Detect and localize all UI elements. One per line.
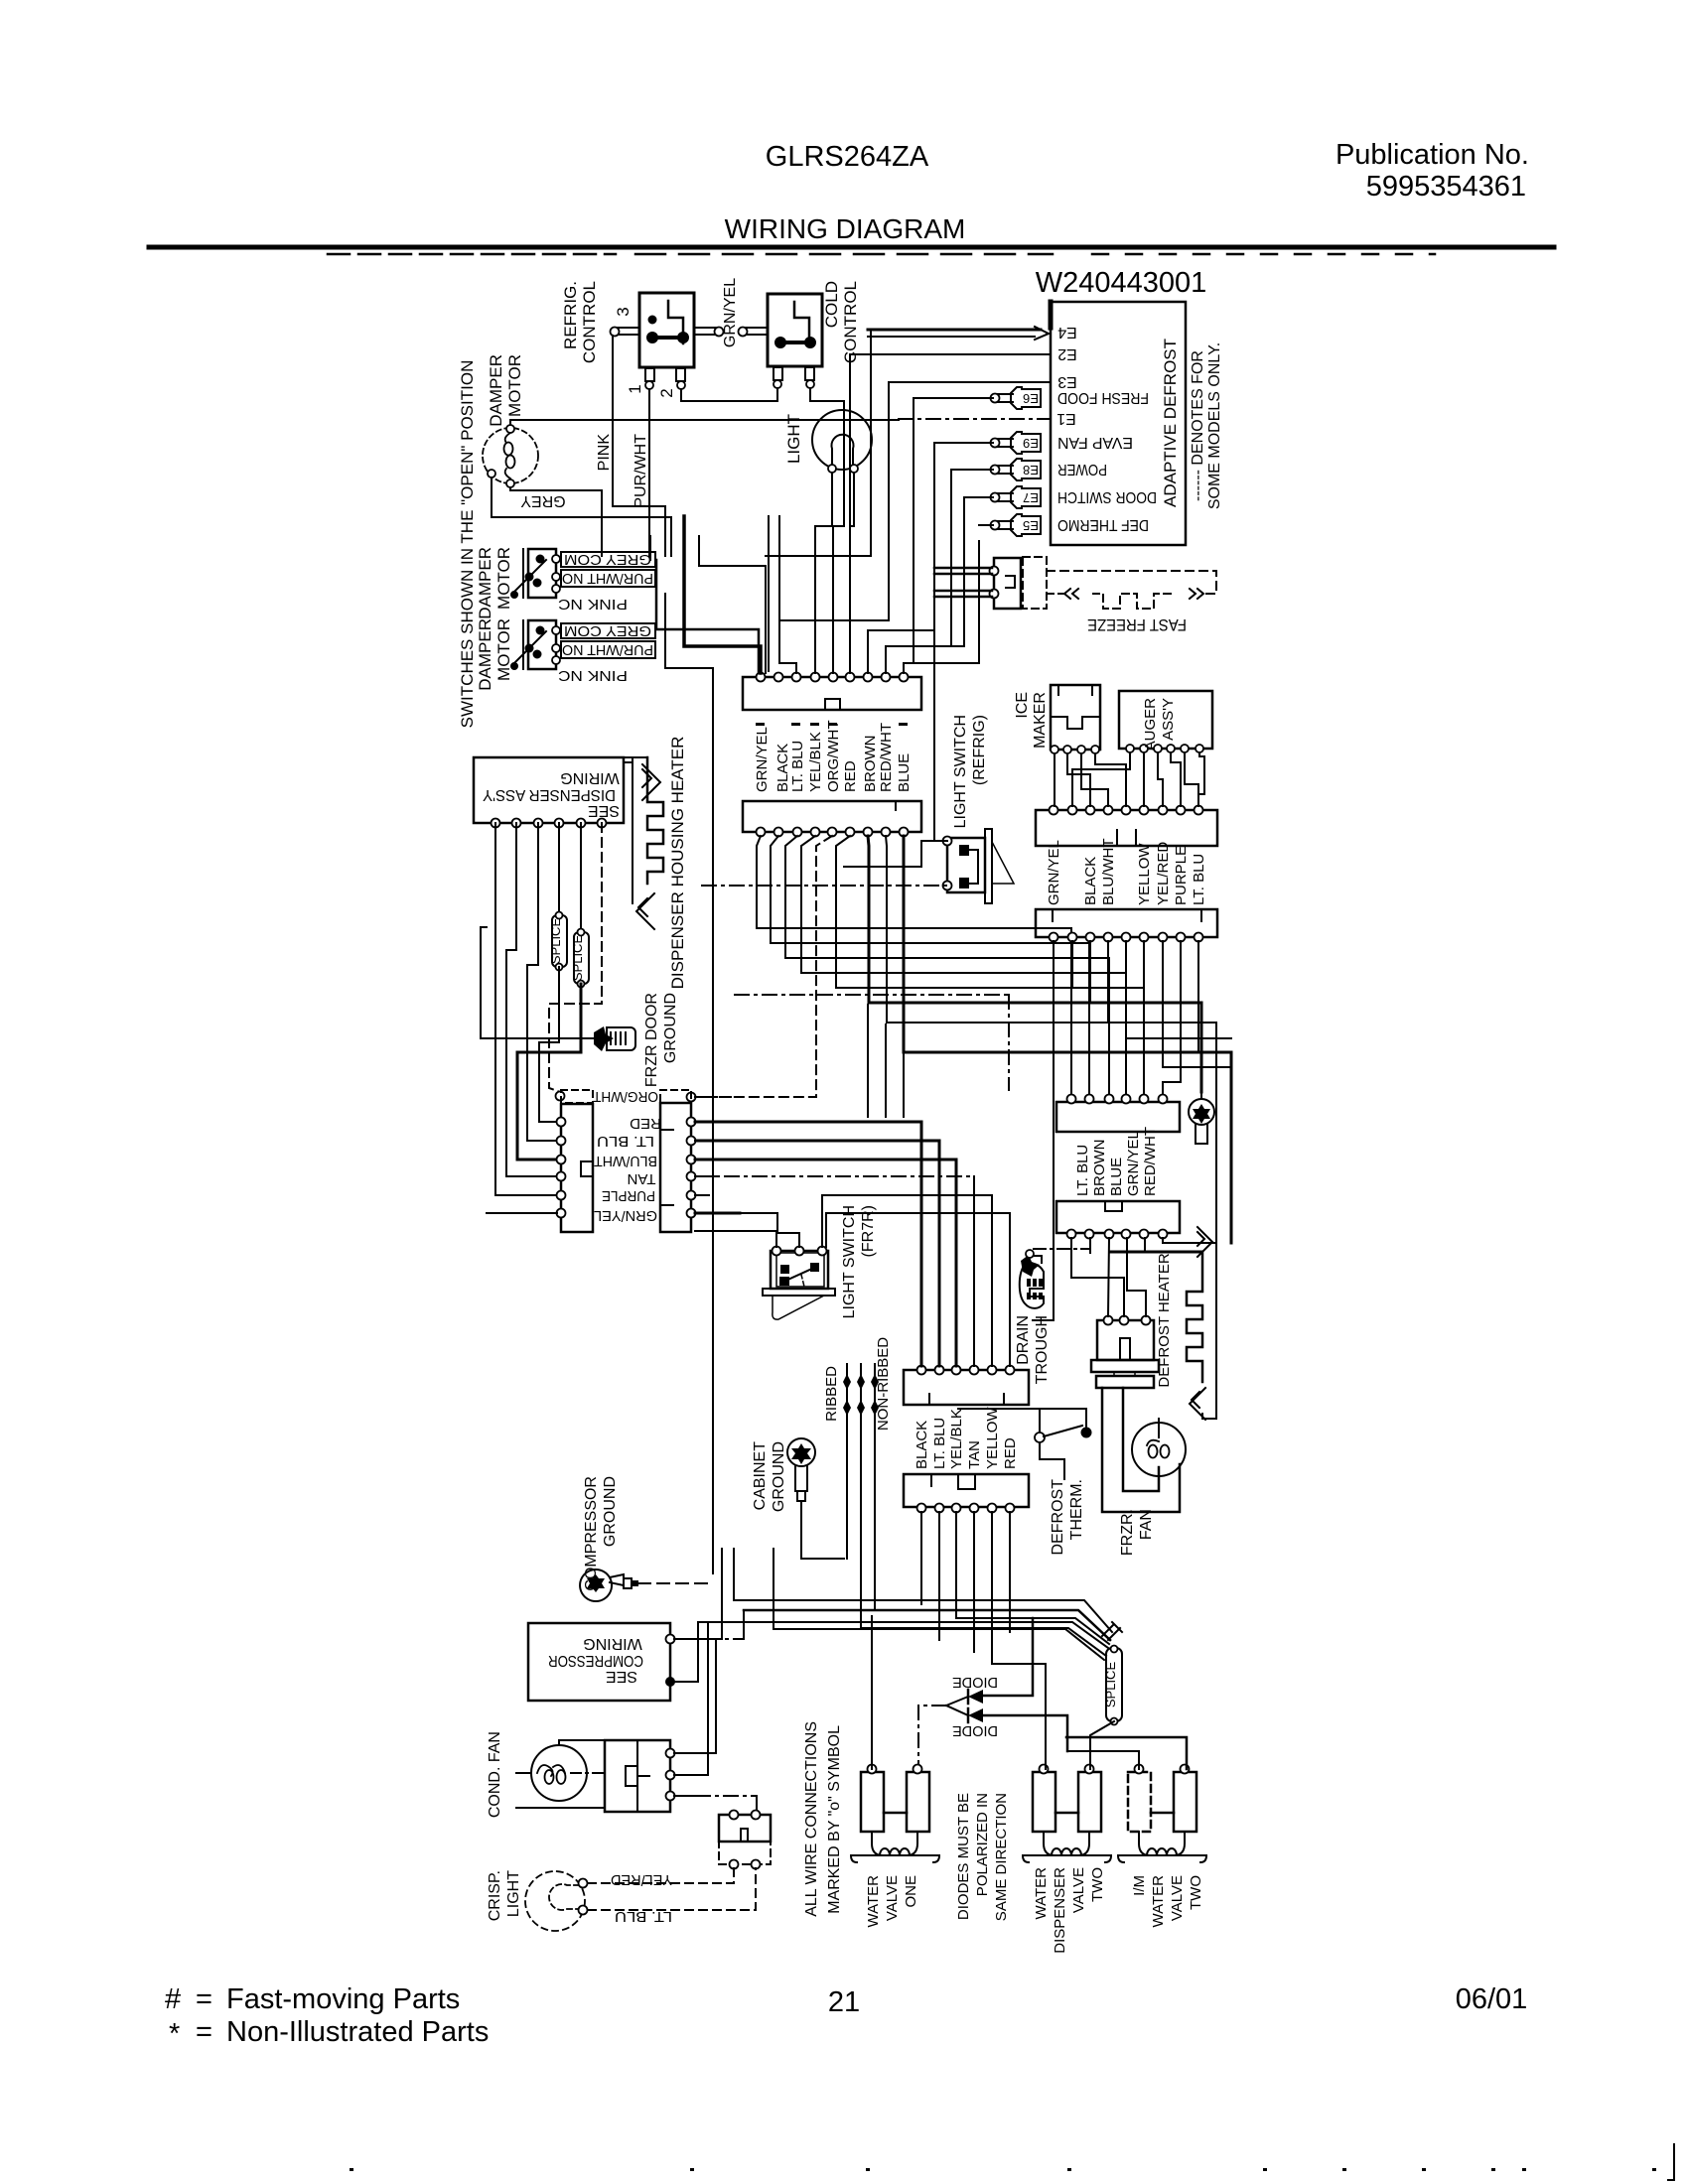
wire splice to valve2 right xyxy=(1090,1721,1114,1769)
connector pin id fragments xyxy=(756,723,908,726)
svg-text:=: = xyxy=(196,2016,212,2048)
i/m water valve two xyxy=(1128,1772,1151,1832)
defrost heater arrows bottom xyxy=(1190,1388,1205,1420)
wire dispenser t3 xyxy=(527,823,557,1141)
wire to light switch top xyxy=(844,841,947,867)
svg-text:PURPLE: PURPLE xyxy=(1173,846,1190,905)
defrost heater element xyxy=(1187,1253,1202,1382)
svg-text:MAKER: MAKER xyxy=(1032,692,1049,749)
svg-text:EVAP FAN: EVAP FAN xyxy=(1057,434,1133,451)
svg-text:LT. BLU: LT. BLU xyxy=(1074,1145,1091,1196)
wire cabinet ground down xyxy=(801,1501,844,1559)
auger assembly xyxy=(1119,691,1212,749)
heater continuation arrows top xyxy=(642,764,660,800)
svg-text:DRAIN: DRAIN xyxy=(1015,1315,1032,1365)
svg-text:BROWN: BROWN xyxy=(1091,1140,1108,1197)
wire dispenser t1 xyxy=(495,823,557,1195)
wire im2 xyxy=(1067,753,1090,806)
svg-text:REFRIG.: REFRIG. xyxy=(561,281,580,349)
svg-text:BLACK: BLACK xyxy=(914,1421,930,1469)
wire cold control to t4 xyxy=(815,417,844,673)
fast freeze vertical xyxy=(904,541,979,663)
ground lug (defrost) xyxy=(1189,1099,1214,1125)
wires into freezer strip xyxy=(697,1122,921,1366)
bottom scan specks xyxy=(350,2168,353,2171)
wire damper motor top to horizontal rail xyxy=(510,420,695,425)
svg-text:DEFROST: DEFROST xyxy=(1050,1479,1066,1556)
thermostat stems (fan leads) xyxy=(1102,1388,1180,1512)
svg-text:E2: E2 xyxy=(1057,345,1077,362)
svg-text:DEF THERMO: DEF THERMO xyxy=(1057,516,1149,533)
svg-text:TAN: TAN xyxy=(966,1440,983,1469)
svg-text:LT. BLU: LT. BLU xyxy=(931,1418,948,1469)
wire light to t6 xyxy=(850,473,854,673)
light bulb xyxy=(812,410,872,470)
svg-text:FRESH FOOD: FRESH FOOD xyxy=(1057,389,1149,406)
wire left t7 horizontal xyxy=(487,1212,557,1214)
wire E7 door switch xyxy=(964,496,993,498)
svg-text:PINK NC: PINK NC xyxy=(558,596,628,613)
defrost strip upper xyxy=(1056,1102,1180,1132)
svg-text:E1: E1 xyxy=(1056,410,1076,427)
wire pur/wht pin1 down xyxy=(648,389,650,556)
svg-text:W240443001: W240443001 xyxy=(1036,267,1207,299)
wire damper motor bottom grey xyxy=(510,487,602,556)
wire E5 def thermo xyxy=(979,524,993,526)
adaptive defrost control box xyxy=(1051,302,1186,545)
see dispenser assy wiring box xyxy=(474,757,624,823)
ice/auger strip lower xyxy=(1036,909,1217,937)
splice 2 xyxy=(580,823,582,932)
svg-text:GROUND: GROUND xyxy=(771,1441,787,1512)
cable tail verticals xyxy=(867,1005,869,1117)
refrig control switch xyxy=(639,293,694,367)
wire E4 xyxy=(868,329,1041,332)
svg-text:ORG/WHT: ORG/WHT xyxy=(593,1088,658,1105)
wires below freezer strip xyxy=(920,1512,922,1604)
svg-text:E5: E5 xyxy=(1023,518,1039,533)
svg-text:SEE: SEE xyxy=(606,1668,637,1685)
svg-text:PINK NC: PINK NC xyxy=(558,667,628,684)
svg-text:TWO: TWO xyxy=(1188,1875,1204,1910)
vertical feeders into bundle xyxy=(721,1549,723,1639)
wire grey com1 down to connector xyxy=(649,536,651,560)
wire ag5 xyxy=(1185,752,1198,806)
svg-text:BLUE: BLUE xyxy=(1108,1158,1125,1196)
svg-text:BROWN: BROWN xyxy=(862,736,879,793)
wire dispenser t2 xyxy=(506,823,557,1176)
svg-text:FRZR DOOR: FRZR DOOR xyxy=(643,993,660,1087)
svg-text:CONTROL: CONTROL xyxy=(841,281,860,363)
wire ag2 xyxy=(1143,752,1145,806)
svg-text:RED: RED xyxy=(842,760,859,792)
svg-text:ICE: ICE xyxy=(1014,692,1031,719)
frzr door ground symbol xyxy=(607,1027,635,1050)
svg-text:LIGHT SWITCH: LIGHT SWITCH xyxy=(952,715,969,828)
cable connector upper (bottom strip of pair) xyxy=(743,801,921,832)
svg-text:E4: E4 xyxy=(1057,324,1077,341)
wire splice2 to connector (thick) xyxy=(517,984,581,1160)
svg-text:SWITCHES SHOWN IN THE "OPEN" P: SWITCHES SHOWN IN THE "OPEN" POSITION xyxy=(458,360,477,729)
svg-text:SEE: SEE xyxy=(588,802,620,819)
wire to valve3 left xyxy=(1067,1751,1139,1769)
crisp light xyxy=(525,1871,585,1931)
svg-text:MOTOR: MOTOR xyxy=(494,618,513,681)
ice/auger strip upper xyxy=(1036,810,1217,846)
svg-text:GROUND: GROUND xyxy=(662,993,679,1063)
svg-text:PINK: PINK xyxy=(596,434,613,472)
svg-text:WATER: WATER xyxy=(1150,1875,1167,1928)
svg-text:GRN/YEL: GRN/YEL xyxy=(754,727,771,792)
svg-text:GRN/YEL: GRN/YEL xyxy=(1046,840,1062,905)
svg-text:RED: RED xyxy=(1002,1437,1019,1469)
wire dispenser t6 dashed org/wht xyxy=(549,823,602,1092)
svg-text:Non-Illustrated Parts: Non-Illustrated Parts xyxy=(226,2016,489,2048)
svg-text:ASS'Y: ASS'Y xyxy=(1160,698,1177,741)
svg-text:WATER: WATER xyxy=(1033,1867,1050,1920)
wire drain trough dash-dot xyxy=(1034,1248,1090,1250)
water dispenser valve two xyxy=(1033,1772,1055,1832)
svg-text:DAMPER: DAMPER xyxy=(476,618,494,691)
wire net RED/WHT down-right xyxy=(886,836,1216,1241)
svg-text:DIODE: DIODE xyxy=(952,1722,998,1739)
wire pink (refrig ctl 3 down) xyxy=(613,336,665,556)
wire t7 up-right xyxy=(868,630,934,673)
wire net RED down-right xyxy=(836,836,1144,1099)
svg-text:MOTOR: MOTOR xyxy=(505,354,524,417)
connector E7 xyxy=(1011,486,1041,508)
svg-text:RED/WHT: RED/WHT xyxy=(1142,1127,1159,1196)
svg-text:GREY COM: GREY COM xyxy=(564,622,651,639)
fast freeze switch xyxy=(994,558,1021,609)
wire im1 xyxy=(1054,753,1055,806)
svg-text:ADAPTIVE DEFROST: ADAPTIVE DEFROST xyxy=(1161,339,1180,507)
drain trough symbol xyxy=(1021,1255,1040,1277)
connector E9 xyxy=(1011,432,1041,454)
svg-text:COMPRESSOR: COMPRESSOR xyxy=(548,1652,643,1669)
svg-text:1: 1 xyxy=(626,384,644,393)
wire splice1 to connector xyxy=(539,967,559,1122)
svg-text:LT. BLU: LT. BLU xyxy=(1191,854,1207,905)
svg-text:3: 3 xyxy=(614,307,633,316)
wire ag3 xyxy=(1158,752,1163,806)
defrost strip lower xyxy=(1056,1201,1180,1233)
svg-text:BLU/WHT: BLU/WHT xyxy=(594,1153,657,1169)
wire ag6 xyxy=(1198,752,1204,794)
svg-text:YEL/RED: YEL/RED xyxy=(611,1871,672,1888)
9-pin connector block xyxy=(743,677,921,710)
svg-text:Fast-moving Parts: Fast-moving Parts xyxy=(226,1983,460,2015)
svg-text:(REFRIG): (REFRIG) xyxy=(971,715,988,785)
wire net BLUE down-right (thick) xyxy=(904,836,1231,1243)
svg-text:COND. FAN: COND. FAN xyxy=(487,1731,503,1818)
svg-text:YELLOW: YELLOW xyxy=(984,1407,1001,1469)
damper motor xyxy=(483,428,538,483)
fast freeze dashed resistor loop xyxy=(1047,571,1216,594)
svg-text:AUGER: AUGER xyxy=(1142,698,1159,751)
svg-text:ONE: ONE xyxy=(903,1875,919,1908)
svg-text:WIRING: WIRING xyxy=(560,769,620,786)
svg-text:CONTROL: CONTROL xyxy=(580,281,599,363)
wire valve1 left up xyxy=(871,1616,873,1769)
svg-text:YEL/BLK: YEL/BLK xyxy=(807,732,824,792)
svg-text:VALVE: VALVE xyxy=(1169,1875,1186,1921)
wire E3 xyxy=(889,381,1051,383)
diode junction wires xyxy=(946,1697,968,1706)
wire t8 up-right xyxy=(886,646,951,673)
svg-text:GREY COM: GREY COM xyxy=(564,551,651,568)
wire to fast freeze t1 xyxy=(934,567,992,570)
ribbed / non-ribbed wire marks xyxy=(846,1364,848,1559)
splice 1 xyxy=(558,823,560,915)
svg-text:BLACK: BLACK xyxy=(1082,857,1099,905)
cabinet ground lug xyxy=(787,1438,815,1466)
svg-text:(FR7R): (FR7R) xyxy=(860,1205,877,1257)
svg-text:GRN/YEL: GRN/YEL xyxy=(722,278,739,347)
defrost therm switch xyxy=(958,1408,1086,1410)
diode 2 xyxy=(968,1708,983,1722)
svg-text:ALL WIRE CONNECTIONS: ALL WIRE CONNECTIONS xyxy=(803,1721,820,1917)
light switch refrig xyxy=(947,838,985,892)
wire net YEL/BLK down-right xyxy=(801,836,1126,1099)
svg-text:5995354361: 5995354361 xyxy=(1366,171,1526,203)
svg-text:NON-RIBBED: NON-RIBBED xyxy=(875,1337,892,1431)
svg-text:SAME DIRECTION: SAME DIRECTION xyxy=(993,1793,1010,1921)
wire t9 up-right xyxy=(903,663,905,673)
wire lt blu dashed xyxy=(588,1868,756,1910)
svg-text:Publication No.: Publication No. xyxy=(1336,139,1529,171)
wire damper motor left terminal down xyxy=(492,478,671,556)
wire compressor t2 xyxy=(674,1622,698,1682)
svg-text:LIGHT: LIGHT xyxy=(505,1870,522,1917)
damper door switch 2 xyxy=(528,620,556,669)
svg-text:LIGHT SWITCH: LIGHT SWITCH xyxy=(841,1205,858,1318)
wire frzr door ground xyxy=(481,1037,594,1039)
wire E6 fresh food xyxy=(914,397,993,399)
frzr fan motor xyxy=(1132,1423,1186,1476)
compressor ground lug xyxy=(580,1570,624,1601)
connector E5 xyxy=(1011,514,1041,536)
svg-text:PUR/WHT NO: PUR/WHT NO xyxy=(562,570,653,587)
wire cold pin2 right-down xyxy=(810,388,844,417)
wire E2 xyxy=(850,353,1051,355)
splice (main) xyxy=(1102,1622,1122,1640)
svg-text:LT. BLU: LT. BLU xyxy=(615,1908,672,1925)
svg-text:I/M: I/M xyxy=(1131,1875,1148,1896)
wire heavy to t1 xyxy=(684,516,761,673)
svg-text:FAST FREEZE: FAST FREEZE xyxy=(1087,615,1187,634)
svg-text:RED/WHT: RED/WHT xyxy=(878,723,895,792)
defrost thermostat block xyxy=(1097,1320,1154,1360)
svg-text:------ DENOTES FOR: ------ DENOTES FOR xyxy=(1190,350,1206,501)
svg-text:E8: E8 xyxy=(1023,463,1039,478)
svg-text:SPLICE: SPLICE xyxy=(570,935,585,982)
see compressor wiring box xyxy=(528,1623,670,1701)
diode 1 output xyxy=(983,1618,1033,1696)
ice maker xyxy=(1051,685,1100,750)
svg-text:DISPENSER ASS'Y: DISPENSER ASS'Y xyxy=(483,786,616,803)
svg-text:GRN/YEL: GRN/YEL xyxy=(594,1207,657,1224)
svg-text:GROUND: GROUND xyxy=(602,1476,619,1547)
bundle horizontals to splice xyxy=(744,1610,1110,1640)
mesh dash-dot rail y1002 xyxy=(735,994,1009,996)
heater element zigzag xyxy=(624,756,647,758)
wire from dispenser box to heater xyxy=(632,757,633,903)
left 7-pin connector xyxy=(561,1104,593,1232)
svg-text:#: # xyxy=(165,1983,181,2015)
wire net BLACK down-right xyxy=(771,836,1089,1099)
wire E9 evap fan xyxy=(934,442,993,444)
svg-text:BLUE: BLUE xyxy=(896,753,913,792)
svg-text:GLRS264ZA: GLRS264ZA xyxy=(766,141,929,173)
svg-text:MOTOR: MOTOR xyxy=(494,547,513,610)
connector E6 xyxy=(1011,387,1041,409)
cond fan motor xyxy=(531,1745,587,1801)
wire yel/red dashed xyxy=(588,1868,734,1883)
svg-text:YEL/RED: YEL/RED xyxy=(1155,842,1172,905)
svg-text:*: * xyxy=(169,2018,180,2050)
damper door switch 1 xyxy=(528,549,556,598)
svg-text:TAN: TAN xyxy=(628,1170,656,1187)
svg-text:THERM.: THERM. xyxy=(1068,1479,1085,1540)
svg-text:WIRING DIAGRAM: WIRING DIAGRAM xyxy=(725,213,966,244)
svg-text:LIGHT: LIGHT xyxy=(784,414,803,464)
svg-text:DOOR SWITCH: DOOR SWITCH xyxy=(1057,488,1157,505)
svg-text:RED: RED xyxy=(630,1115,661,1132)
wire ag4 xyxy=(1171,752,1181,806)
wire net BROWN down-right (thick) xyxy=(868,836,1201,1092)
svg-text:FRZR.: FRZR. xyxy=(1119,1509,1136,1556)
svg-text:BLU/WHT: BLU/WHT xyxy=(1100,839,1117,906)
svg-text:DISPENSER HOUSING HEATER: DISPENSER HOUSING HEATER xyxy=(668,737,687,990)
wire compressor t1 xyxy=(674,1638,706,1640)
svg-text:SPLICE: SPLICE xyxy=(1103,1662,1118,1708)
wire to valve2 left xyxy=(992,1664,1046,1769)
wire strip t6 right xyxy=(1163,1238,1216,1243)
dash-dot rail y1185 xyxy=(697,1175,974,1177)
svg-text:VALVE: VALVE xyxy=(1070,1867,1087,1913)
svg-text:TWO: TWO xyxy=(1089,1867,1106,1902)
svg-text:06/01: 06/01 xyxy=(1456,1983,1528,2015)
dashed connector tops xyxy=(561,1090,593,1103)
svg-text:DIODES MUST BE: DIODES MUST BE xyxy=(955,1793,972,1920)
bottom right corner mark xyxy=(1673,2144,1675,2180)
svg-text:E3: E3 xyxy=(1057,373,1077,390)
wires relay to bundle xyxy=(674,1639,716,1753)
wires light switch fr7r xyxy=(695,1231,776,1247)
svg-text:2: 2 xyxy=(657,388,676,397)
svg-text:MARKED BY "o" SYMBOL: MARKED BY "o" SYMBOL xyxy=(826,1725,843,1914)
right connector stubs xyxy=(695,1096,735,1098)
svg-text:WATER: WATER xyxy=(865,1875,882,1928)
wire net LT.BLU down-right xyxy=(785,836,1109,1099)
wire to fast freeze t2 xyxy=(934,590,992,593)
svg-text:DIODE: DIODE xyxy=(952,1674,998,1691)
svg-text:DAMPER: DAMPER xyxy=(476,547,494,619)
svg-text:E9: E9 xyxy=(1023,436,1039,451)
svg-text:E7: E7 xyxy=(1023,490,1039,505)
wire heater feed thick xyxy=(1144,1238,1146,1252)
svg-text:E6: E6 xyxy=(1023,391,1039,406)
svg-text:CABINET: CABINET xyxy=(752,1441,769,1511)
svg-text:LT. BLU: LT. BLU xyxy=(597,1133,654,1150)
diode 2 output xyxy=(983,1715,1067,1751)
wire pur/wht no1 down xyxy=(665,594,713,1573)
svg-text:COMPRESSOR: COMPRESSOR xyxy=(583,1476,600,1591)
svg-text:21: 21 xyxy=(828,1986,860,2018)
svg-text:PUR/WHT NO: PUR/WHT NO xyxy=(562,641,653,658)
svg-text:POWER: POWER xyxy=(1057,461,1107,478)
svg-text:CRISP.: CRISP. xyxy=(487,1870,503,1921)
defrost heater arrows top xyxy=(1197,1227,1212,1257)
wire to light switch bottom dashed xyxy=(702,885,947,887)
title underline xyxy=(149,245,1554,250)
heater continuation arrows bottom xyxy=(636,893,654,929)
svg-text:DAMPER: DAMPER xyxy=(487,354,505,427)
cold control switch xyxy=(768,294,822,366)
svg-text:ORG/WHT: ORG/WHT xyxy=(825,721,842,793)
svg-text:GREY: GREY xyxy=(520,492,566,509)
wire bundle to valve3 right xyxy=(1066,1737,1187,1769)
wire light to t5 xyxy=(832,473,833,673)
water valve one xyxy=(861,1772,884,1832)
svg-text:YELLOW: YELLOW xyxy=(1136,843,1153,905)
wire to t2 xyxy=(699,536,766,673)
svg-text:SOME MODELS ONLY.: SOME MODELS ONLY. xyxy=(1206,342,1223,509)
svg-text:PURPLE: PURPLE xyxy=(602,1187,655,1204)
wire pin2 to cold control pin xyxy=(681,388,777,401)
crisp light door switch box xyxy=(719,1815,771,1842)
svg-text:POLARIZED IN: POLARIZED IN xyxy=(974,1793,991,1896)
wire E8 power xyxy=(951,469,993,471)
svg-text:WIRING: WIRING xyxy=(583,1635,642,1652)
wires strip to thermostat xyxy=(1071,1238,1124,1316)
svg-text:VALVE: VALVE xyxy=(884,1875,901,1921)
wire net GRN/YEL down-right xyxy=(757,836,1071,1099)
svg-text:RIBBED: RIBBED xyxy=(823,1366,840,1422)
wire to t3 xyxy=(779,516,796,673)
wire net ORG/WHT dashed xyxy=(695,836,832,1097)
svg-text:LT. BLU: LT. BLU xyxy=(789,741,806,792)
compressor relay box xyxy=(605,1740,670,1812)
connector E8 xyxy=(1011,459,1041,480)
svg-text:FAN: FAN xyxy=(1138,1509,1155,1540)
freezer cable strip upper xyxy=(904,1370,1029,1405)
wire compressor ground dashed xyxy=(638,1582,713,1584)
svg-text:GRN/YEL: GRN/YEL xyxy=(1125,1131,1142,1196)
svg-text:COLD: COLD xyxy=(822,281,841,328)
svg-text:SPLICE: SPLICE xyxy=(548,918,563,965)
wires below lower strip xyxy=(1033,941,1054,1320)
svg-text:TROUGH: TROUGH xyxy=(1034,1315,1051,1384)
svg-text:YEL/BLK: YEL/BLK xyxy=(948,1409,965,1469)
right 7-pin connector xyxy=(660,1103,691,1232)
svg-text:=: = xyxy=(196,1983,212,2015)
wire cond fan left leads xyxy=(516,1772,531,1774)
svg-text:DISPENSER: DISPENSER xyxy=(1052,1867,1068,1954)
svg-text:PUR/WHT: PUR/WHT xyxy=(633,434,649,508)
wire im3 xyxy=(1081,753,1108,806)
diode 1 xyxy=(968,1690,983,1704)
wire E1 dashed xyxy=(899,418,1049,420)
wire im4 xyxy=(1095,753,1126,806)
light switch fr7r xyxy=(771,1251,828,1289)
freezer cable strip lower xyxy=(904,1474,1029,1507)
